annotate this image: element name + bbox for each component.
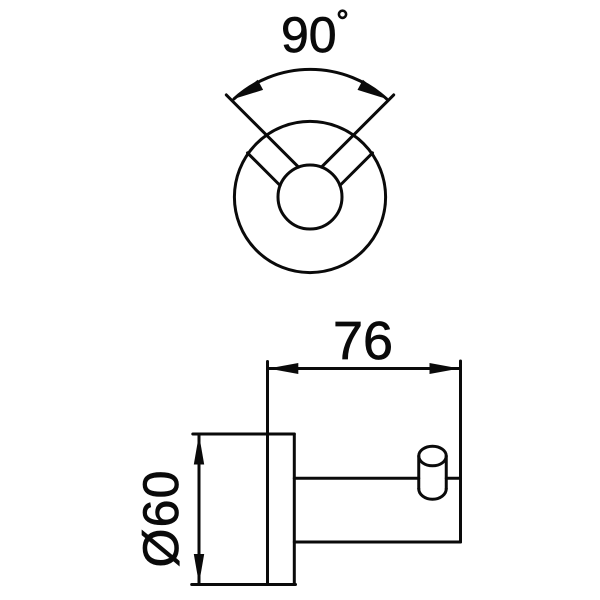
label 90 degrees (281, 7, 346, 63)
wall plate bottom edge + diameter60 bottom extension line (192, 583, 296, 586)
left arm inner edge + extension line (226, 95, 298, 167)
side view below (192, 361, 461, 585)
76 dimension arrowhead left (268, 363, 298, 374)
inner circle (top view hub) (278, 165, 342, 229)
hook arm top edge left segment (294, 477, 418, 480)
dimension arc 90 degrees (234, 69, 387, 99)
svg-text:76: 76 (333, 311, 393, 371)
wall plate top edge + diameter60 top extension line (193, 433, 294, 436)
peg cylinder top ellipse (419, 446, 447, 466)
wall plate left edge + 76 extension line (266, 362, 269, 585)
right arm outer edge (340, 153, 373, 186)
hook arm right edge + 76 right extension line (459, 361, 462, 542)
left arm outer edge (248, 153, 281, 186)
peg cylinder left side (417, 456, 420, 489)
dimension line 76 (268, 367, 459, 370)
svg-text:90: 90 (281, 7, 337, 63)
outer circle (top view body) (234, 121, 385, 272)
diameter60 arrowhead bottom (194, 554, 204, 584)
76 dimension arrowhead right (430, 363, 460, 374)
svg-text:Ø60: Ø60 (133, 469, 189, 567)
right arm inner edge + extension line (322, 95, 394, 167)
diameter60 arrowhead top (194, 435, 204, 465)
arc arrowhead left (234, 80, 263, 99)
arc arrowhead right (358, 80, 387, 99)
peg cylinder bottom cap arc (419, 489, 447, 500)
dimension line diameter 60 (198, 435, 201, 585)
hook arm bottom edge (294, 541, 460, 544)
peg cylinder right side (445, 456, 448, 489)
hook arm top edge right segment (446, 477, 460, 480)
wall plate right edge (293, 434, 296, 585)
